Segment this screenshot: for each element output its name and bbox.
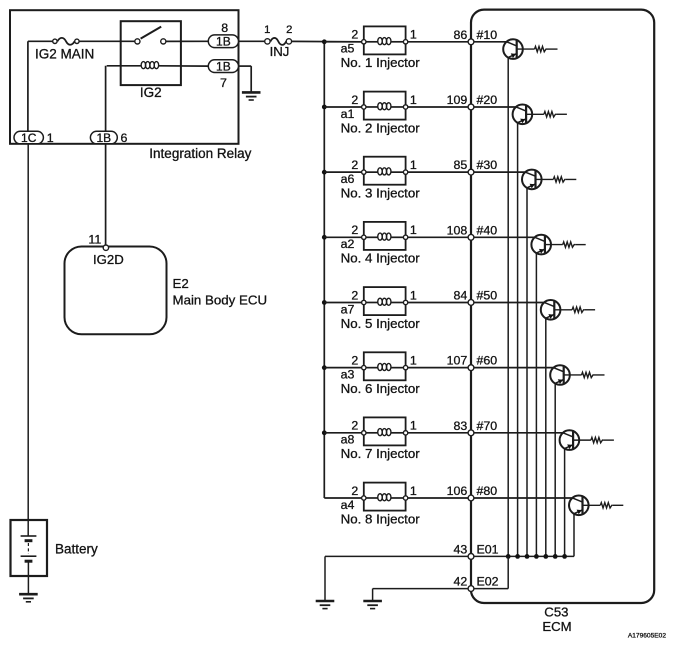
- svg-text:E01: E01: [477, 542, 499, 556]
- integration relay outer box: [10, 10, 239, 144]
- junction node bus row 7: [322, 430, 327, 435]
- resistor R2: [544, 112, 557, 117]
- pin number 109: [447, 93, 468, 107]
- svg-text:Integration Relay: Integration Relay: [149, 146, 251, 161]
- pin number 85: [454, 158, 468, 172]
- wire bus to injector 1 pin 2: [324, 41, 364, 43]
- wire transistor Q7 emitter to E01 rail: [564, 449, 566, 557]
- wire E02 riser to E01 rail: [507, 556, 509, 588]
- pin number 1 of connector 1C: [47, 131, 54, 145]
- label a6: [341, 172, 355, 186]
- transistor Q6: [550, 365, 570, 385]
- svg-text:No. 2 Injector: No. 2 Injector: [341, 120, 421, 135]
- svg-text:a4: a4: [341, 498, 355, 512]
- svg-text:a1: a1: [341, 107, 355, 121]
- label No. 3 Injector: [341, 186, 421, 201]
- wire transistor Q7 base to resistor R7: [573, 439, 591, 441]
- svg-text:No. 3 Injector: No. 3 Injector: [341, 186, 421, 201]
- label No. 5 Injector: [341, 316, 421, 331]
- ECM pin #10 terminal: [468, 39, 474, 45]
- ECM pin #70 terminal: [468, 430, 474, 436]
- injector 6 pin 1 terminal: [403, 365, 407, 369]
- ECM pin #80 terminal: [468, 495, 474, 501]
- svg-text:1B: 1B: [96, 131, 111, 145]
- svg-text:2: 2: [286, 24, 292, 36]
- wire injector 4 pin 1 to ECM pin #40: [408, 236, 471, 238]
- injector 1 pin 1 terminal: [403, 40, 407, 44]
- svg-text:2: 2: [351, 93, 358, 107]
- svg-text:IG2D: IG2D: [93, 252, 124, 267]
- transistor Q5: [541, 300, 561, 320]
- ground at relay pin 7: [242, 92, 261, 100]
- junction node E01 rail emitter 2: [515, 554, 520, 559]
- junction node E01 rail emitter 3: [525, 554, 530, 559]
- relay switch contacts: [135, 39, 166, 44]
- transistor Q8: [569, 496, 589, 516]
- injector a2 No. 4 Injector (solenoid box): [364, 222, 406, 250]
- label #10: [477, 28, 498, 42]
- injector supply bus vertical wire: [323, 42, 325, 498]
- junction node E01 rail emitter 6: [553, 554, 558, 559]
- wire bus to injector 4 pin 2: [324, 236, 364, 238]
- wire E02 pin to riser: [471, 588, 508, 590]
- wire injector 3 pin 1 to ECM pin #30: [408, 171, 471, 173]
- wire injector 8 pin 1 to ECM pin #80: [408, 497, 471, 499]
- svg-text:86: 86: [454, 28, 468, 42]
- svg-text:1B: 1B: [216, 35, 231, 49]
- ECM pin #40 terminal: [468, 234, 474, 240]
- svg-text:84: 84: [454, 288, 468, 302]
- svg-text:43: 43: [454, 542, 468, 556]
- wire ECM pin #70 to transistor Q7 collector: [471, 432, 563, 434]
- label #20: [477, 93, 498, 107]
- junction node bus row 1: [322, 39, 327, 44]
- ECM box C53: [471, 10, 654, 603]
- fuse IG2 MAIN: [53, 38, 79, 45]
- svg-text:INJ: INJ: [270, 44, 290, 59]
- junction node bus row 5: [322, 300, 327, 305]
- wire fuse to relay switch: [79, 40, 135, 42]
- svg-text:a8: a8: [341, 433, 355, 447]
- svg-text:No. 8 Injector: No. 8 Injector: [341, 511, 421, 526]
- injector a3 No. 6 Injector (solenoid box): [364, 352, 406, 380]
- battery cells: [21, 536, 37, 561]
- pin number 7: [220, 76, 227, 90]
- pin number 11: [88, 233, 101, 247]
- label No. 7 Injector: [341, 446, 421, 461]
- wire transistor Q6 base to resistor R6: [564, 374, 582, 376]
- svg-text:2: 2: [351, 353, 358, 367]
- svg-text:#50: #50: [477, 288, 498, 302]
- svg-text:1: 1: [410, 158, 417, 172]
- pin number 2 of fuse INJ: [286, 24, 292, 36]
- injector 8 pin 2 terminal: [362, 496, 366, 500]
- svg-text:IG2: IG2: [140, 85, 162, 100]
- wire fuse INJ to injector supply bus: [291, 40, 364, 42]
- connector 1C pin 1 oval: [14, 131, 43, 145]
- junction node E01 rail emitter 4: [534, 554, 539, 559]
- svg-text:#10: #10: [477, 28, 498, 42]
- svg-text:E02: E02: [477, 575, 499, 589]
- svg-text:a7: a7: [341, 302, 355, 316]
- pin 11 terminal IG2D: [103, 245, 108, 250]
- label No. 4 Injector: [341, 251, 421, 266]
- battery box: [11, 520, 48, 576]
- svg-text:1: 1: [410, 223, 417, 237]
- drawing number A179605E02: [628, 633, 666, 640]
- label a2: [341, 237, 355, 251]
- junction node E01 rail emitter 7: [562, 554, 567, 559]
- label E02: [477, 575, 499, 589]
- wire ECM pin #60 to transistor Q6 collector: [471, 367, 554, 369]
- resistor R5: [572, 307, 585, 312]
- svg-text:107: 107: [447, 354, 468, 368]
- junction node E01 rail emitter 1: [506, 554, 511, 559]
- wire relay left branch from fuse IG2 MAIN down to connector 1C: [27, 41, 29, 131]
- svg-text:1: 1: [47, 131, 54, 145]
- svg-text:No. 5 Injector: No. 5 Injector: [341, 316, 421, 331]
- connector 1B pin 6 oval: [90, 131, 117, 145]
- svg-text:6: 6: [121, 131, 128, 145]
- pin number 2 of injector 3: [351, 158, 358, 172]
- wire transistor Q6 emitter to E01 rail: [554, 383, 556, 556]
- wire resistor R8 tail: [613, 504, 624, 506]
- wire resistor R1 tail: [547, 48, 558, 50]
- fuse INJ: [265, 38, 292, 45]
- label Main Body ECU: [173, 292, 268, 307]
- svg-text:42: 42: [454, 575, 468, 589]
- pin number 2 of injector 1: [351, 28, 358, 42]
- svg-text:11: 11: [88, 233, 101, 247]
- wire ECM pin #40 to transistor Q4 collector: [471, 236, 535, 238]
- pin number 2 of injector 2: [351, 93, 358, 107]
- injector 8 pin 1 terminal: [403, 496, 407, 500]
- injector 4 pin 2 terminal: [362, 235, 366, 239]
- ECM pin E01 terminal: [468, 554, 474, 560]
- label E01: [477, 542, 499, 556]
- ECM pin #30 terminal: [468, 169, 474, 175]
- svg-text:A179605E02: A179605E02: [628, 633, 666, 640]
- wire injector 7 pin 1 to ECM pin #70: [408, 432, 471, 434]
- injector a6 No. 3 Injector (solenoid box): [364, 157, 406, 185]
- wire coil to connector 1B pin 6 and down to E2 pin 11: [105, 66, 107, 247]
- resistor R8: [600, 503, 613, 508]
- wire transistor Q5 base to resistor R5: [554, 309, 572, 311]
- wire resistor R3 tail: [566, 178, 577, 180]
- svg-text:1: 1: [410, 353, 417, 367]
- ECM pin #20 terminal: [468, 104, 474, 110]
- wire transistor Q8 base to resistor R8: [583, 504, 601, 506]
- svg-text:ECM: ECM: [542, 619, 571, 634]
- svg-text:1: 1: [410, 484, 417, 498]
- transistor Q1: [503, 39, 523, 59]
- svg-text:1C: 1C: [21, 131, 37, 145]
- pin number 43: [454, 542, 468, 556]
- svg-text:Battery: Battery: [55, 541, 98, 556]
- injector 4 pin 1 terminal: [403, 235, 407, 239]
- wire transistor Q1 base to resistor R1: [517, 48, 535, 50]
- pin number 6: [121, 131, 128, 145]
- wire injector 2 pin 1 to ECM pin #20: [408, 106, 471, 108]
- wire horizontal into fuse IG2 MAIN: [28, 40, 53, 42]
- wire relay 1C to battery: [27, 144, 29, 536]
- wire injector 6 pin 1 to ECM pin #60: [408, 367, 471, 369]
- injector 1 pin 2 terminal: [362, 40, 366, 44]
- pin number 1 of injector 6: [410, 353, 417, 367]
- injector 3 pin 1 terminal: [403, 170, 407, 174]
- connector 1B pin 8 oval: [208, 35, 238, 49]
- wire transistor Q2 base to resistor R2: [526, 113, 544, 115]
- injector 3 pin 2 terminal: [362, 170, 366, 174]
- svg-text:2: 2: [351, 419, 358, 433]
- label INJ: [270, 44, 290, 59]
- svg-text:C53: C53: [544, 605, 568, 620]
- pin number 1 of fuse INJ: [264, 24, 270, 36]
- svg-text:2: 2: [351, 28, 358, 42]
- svg-text:IG2 MAIN: IG2 MAIN: [35, 47, 94, 62]
- svg-text:2: 2: [351, 158, 358, 172]
- label a3: [341, 367, 355, 381]
- ground E01: [316, 601, 335, 609]
- svg-text:1: 1: [410, 93, 417, 107]
- svg-text:#80: #80: [477, 484, 498, 498]
- resistor R3: [553, 177, 566, 182]
- junction node bus row 3: [322, 170, 327, 175]
- wire relay 1B/8 to fuse INJ: [239, 40, 266, 42]
- wire resistor R4 tail: [575, 244, 586, 246]
- svg-text:2: 2: [351, 288, 358, 302]
- svg-text:1: 1: [264, 24, 270, 36]
- pin number 2 of injector 8: [351, 484, 358, 498]
- label No. 2 Injector: [341, 120, 421, 135]
- pin number 1 of injector 2: [410, 93, 417, 107]
- wire E02 to chassis ground: [373, 589, 471, 601]
- pin number 2 of injector 7: [351, 419, 358, 433]
- pin number 42: [454, 575, 468, 589]
- injector 2 pin 1 terminal: [403, 105, 407, 109]
- wire ECM pin #10 to transistor Q1 collector: [471, 41, 507, 43]
- injector 6 pin 2 terminal: [362, 365, 366, 369]
- wire bus to injector 6 pin 2: [324, 367, 364, 369]
- node IG2D: [93, 252, 124, 267]
- svg-text:a3: a3: [341, 367, 355, 381]
- label No. 1 Injector: [341, 55, 421, 70]
- label No. 8 Injector: [341, 511, 421, 526]
- relay IG2 inner box: [121, 21, 181, 85]
- label #30: [477, 158, 498, 172]
- svg-text:#70: #70: [477, 419, 498, 433]
- svg-text:Main Body ECU: Main Body ECU: [173, 292, 268, 307]
- injector 7 pin 1 terminal: [403, 431, 407, 435]
- wire transistor Q1 emitter to E01 rail: [507, 58, 509, 557]
- resistor R7: [591, 437, 604, 442]
- pin number 84: [454, 288, 468, 302]
- wire transistor Q3 base to resistor R3: [536, 178, 554, 180]
- label #40: [477, 223, 498, 237]
- label C53: [544, 605, 568, 620]
- svg-text:#20: #20: [477, 93, 498, 107]
- svg-text:1: 1: [410, 288, 417, 302]
- injector 5 pin 2 terminal: [362, 300, 366, 304]
- svg-text:No. 7 Injector: No. 7 Injector: [341, 446, 421, 461]
- connector 1B pin 7 oval: [208, 60, 238, 74]
- label ECM: [542, 619, 571, 634]
- wire bus to injector 2 pin 2: [324, 106, 364, 108]
- wire E01 to chassis ground: [325, 556, 471, 601]
- svg-text:a6: a6: [341, 172, 355, 186]
- wire transistor Q5 emitter to E01 rail: [545, 318, 547, 556]
- ECM pin E02 terminal: [468, 586, 474, 592]
- svg-text:#40: #40: [477, 223, 498, 237]
- transistor Q3: [522, 170, 542, 190]
- wire injector 5 pin 1 to ECM pin #50: [408, 301, 471, 303]
- svg-text:No. 6 Injector: No. 6 Injector: [341, 381, 421, 396]
- pin number 1 of injector 8: [410, 484, 417, 498]
- wire battery to ground: [27, 561, 29, 594]
- wire resistor R7 tail: [603, 439, 614, 441]
- label a4: [341, 498, 355, 512]
- wire transistor Q4 emitter to E01 rail: [535, 253, 537, 556]
- pin number 1 of injector 7: [410, 419, 417, 433]
- junction node bus row 6: [322, 365, 327, 370]
- svg-text:a5: a5: [341, 42, 355, 56]
- svg-text:106: 106: [447, 484, 468, 498]
- svg-text:#30: #30: [477, 158, 498, 172]
- pin number 83: [454, 419, 468, 433]
- pin number 1 of injector 1: [410, 28, 417, 42]
- wire transistor Q4 base to resistor R4: [545, 244, 563, 246]
- junction node E01 rail emitter 5: [543, 554, 548, 559]
- svg-text:8: 8: [221, 21, 228, 35]
- label #70: [477, 419, 498, 433]
- svg-text:1B: 1B: [216, 60, 231, 74]
- label #80: [477, 484, 498, 498]
- label #60: [477, 354, 498, 368]
- svg-text:109: 109: [447, 93, 468, 107]
- wire E01 rail inside ECM: [471, 555, 574, 557]
- wire 1B pin 7 to ground: [239, 66, 252, 92]
- pin number 8: [221, 21, 228, 35]
- wire transistor Q3 emitter to E01 rail: [526, 188, 528, 557]
- svg-text:#60: #60: [477, 354, 498, 368]
- resistor R1: [535, 46, 548, 51]
- injector 7 pin 2 terminal: [362, 431, 366, 435]
- label a5: [341, 42, 355, 56]
- ECM pin #60 terminal: [468, 365, 474, 371]
- label a1: [341, 107, 355, 121]
- ground E02: [363, 601, 382, 609]
- pin number 1 of injector 4: [410, 223, 417, 237]
- svg-text:E2: E2: [173, 276, 189, 291]
- injector 5 pin 1 terminal: [403, 300, 407, 304]
- injector a1 No. 2 Injector (solenoid box): [364, 92, 406, 120]
- svg-text:2: 2: [351, 484, 358, 498]
- label IG2: [140, 85, 162, 100]
- wire resistor R5 tail: [585, 309, 596, 311]
- injector 2 pin 2 terminal: [362, 105, 366, 109]
- label a8: [341, 433, 355, 447]
- pin number 2 of injector 5: [351, 288, 358, 302]
- ground battery: [19, 594, 38, 602]
- label Integration Relay: [149, 146, 251, 161]
- pin number 2 of injector 6: [351, 353, 358, 367]
- svg-text:85: 85: [454, 158, 468, 172]
- junction node bus row 4: [322, 235, 327, 240]
- label IG2 MAIN: [35, 47, 94, 62]
- wire bus to injector 7 pin 2: [324, 432, 364, 434]
- transistor Q7: [560, 430, 580, 450]
- pin number 86: [454, 28, 468, 42]
- svg-text:1: 1: [410, 419, 417, 433]
- pin number 108: [447, 223, 468, 237]
- svg-text:7: 7: [220, 76, 227, 90]
- E2 Main Body ECU box: [65, 247, 167, 335]
- label #50: [477, 288, 498, 302]
- wire transistor Q8 emitter to E01 rail: [573, 514, 575, 557]
- wire ECM pin #30 to transistor Q3 collector: [471, 171, 525, 173]
- wire bus to injector 5 pin 2: [324, 301, 364, 303]
- svg-text:No. 4 Injector: No. 4 Injector: [341, 251, 421, 266]
- wire bus to injector 3 pin 2: [324, 171, 364, 173]
- relay switch blade: [141, 27, 162, 39]
- label a7: [341, 302, 355, 316]
- injector a4 No. 8 Injector (solenoid box): [364, 483, 406, 511]
- wire resistor R6 tail: [594, 374, 605, 376]
- label No. 6 Injector: [341, 381, 421, 396]
- injector a5 No. 1 Injector (solenoid box): [364, 26, 406, 54]
- injector a8 No. 7 Injector (solenoid box): [364, 417, 406, 445]
- resistor R4: [563, 242, 576, 247]
- wire ECM pin #80 to transistor Q8 collector: [471, 497, 572, 499]
- label Battery: [55, 541, 98, 556]
- ECM pin #50 terminal: [468, 300, 474, 306]
- svg-text:a2: a2: [341, 237, 355, 251]
- wire bus to injector 8 pin 2: [324, 497, 364, 499]
- pin number 2 of injector 4: [351, 223, 358, 237]
- wire transistor Q2 emitter to E01 rail: [517, 123, 519, 557]
- pin number 1 of injector 3: [410, 158, 417, 172]
- pin number 106: [447, 484, 468, 498]
- wire switch to connector 1B pin 8: [166, 40, 208, 42]
- wire resistor R2 tail: [556, 113, 567, 115]
- svg-text:No. 1 Injector: No. 1 Injector: [341, 55, 421, 70]
- injector a7 No. 5 Injector (solenoid box): [364, 287, 406, 315]
- resistor R6: [582, 372, 595, 377]
- pin number 1 of injector 5: [410, 288, 417, 302]
- svg-text:83: 83: [454, 419, 468, 433]
- wire ECM pin #20 to transistor Q2 collector: [471, 106, 516, 108]
- svg-text:108: 108: [447, 223, 468, 237]
- wire ECM pin #50 to transistor Q5 collector: [471, 301, 544, 303]
- pin number 107: [447, 354, 468, 368]
- transistor Q2: [513, 105, 533, 125]
- junction node bus row 2: [322, 105, 327, 110]
- svg-text:1: 1: [410, 28, 417, 42]
- relay coil IG2: [107, 62, 209, 69]
- svg-text:2: 2: [351, 223, 358, 237]
- label E2: [173, 276, 189, 291]
- wire injector 1 pin 1 to ECM pin #10: [408, 41, 471, 43]
- transistor Q4: [531, 235, 551, 255]
